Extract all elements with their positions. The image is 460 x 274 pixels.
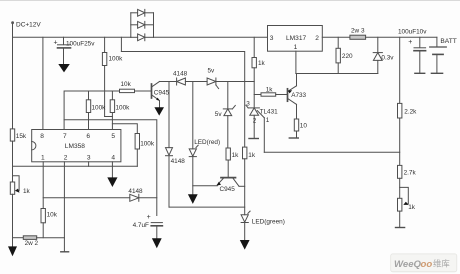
- svg-text:C945: C945: [154, 89, 170, 96]
- zener D 5v (horizontal): [207, 67, 219, 88]
- battery BATT: [430, 37, 457, 73]
- diode D 4148 (points left): [173, 70, 188, 85]
- svg-text:100k: 100k: [116, 105, 131, 112]
- svg-text:3: 3: [87, 154, 91, 161]
- svg-text:A733: A733: [291, 92, 306, 99]
- svg-text:1k: 1k: [258, 60, 266, 67]
- ground arrow under pin4: [107, 177, 117, 187]
- ground bar under TL431: [249, 138, 258, 140]
- svg-text:4.7uF: 4.7uF: [133, 222, 149, 229]
- resistor R 2w3: [350, 28, 437, 40]
- wire long y152: [264, 151, 399, 153]
- wire pin2 down: [63, 162, 65, 252]
- wire y73.5: [296, 73, 378, 75]
- resistor R 2w2: [13, 236, 65, 247]
- wire pin3 down: [88, 162, 90, 167]
- svg-text:4148: 4148: [128, 188, 143, 195]
- wire drop x=244.7: [244, 82, 246, 148]
- node DC+12V terminal: [11, 21, 41, 28]
- wire rail to LM317 pin3: [154, 36, 268, 38]
- svg-text:DC+12V: DC+12V: [16, 22, 41, 29]
- wire y81 (zener row): [160, 81, 177, 83]
- ground bar under R10: [289, 137, 298, 139]
- svg-text:2w 2: 2w 2: [25, 240, 39, 247]
- svg-text:2w 3: 2w 3: [351, 28, 365, 35]
- wire main +12V rail: [13, 36, 131, 38]
- resistor R 220: [336, 37, 353, 73]
- LM317 U2: [268, 26, 323, 52]
- wire second rail: [121, 52, 244, 82]
- svg-text:4: 4: [111, 154, 115, 161]
- svg-text:1: 1: [266, 117, 270, 124]
- svg-text:BATT: BATT: [440, 38, 456, 45]
- LM358 U1: [32, 130, 121, 162]
- svg-text:1k: 1k: [248, 152, 256, 159]
- svg-text:2: 2: [315, 35, 319, 42]
- diode D 4148 (bottom, points right): [128, 188, 156, 201]
- faint top border: [0, 0, 460, 2]
- svg-text:100uF10v: 100uF10v: [398, 29, 427, 36]
- svg-text:LED(red): LED(red): [194, 139, 220, 146]
- wire LM317 out: [322, 36, 350, 38]
- wire jog from top 100k to pair: [105, 116, 113, 118]
- svg-text:1: 1: [294, 44, 298, 51]
- svg-text:oo: oo: [421, 259, 433, 270]
- svg-text:3: 3: [246, 100, 250, 107]
- svg-text:100uF25v: 100uF25v: [66, 40, 95, 47]
- svg-text:10: 10: [300, 122, 308, 129]
- resistor R 10: [294, 119, 307, 138]
- svg-text:6: 6: [86, 133, 90, 140]
- svg-text:100k: 100k: [92, 105, 107, 112]
- transistor Q3 A733: [288, 74, 307, 120]
- ground arrow under 4.7uF: [152, 238, 162, 248]
- svg-text:+: +: [408, 39, 412, 46]
- capacitor C 4.7uF: [133, 214, 163, 238]
- resistor R 2.7k: [398, 165, 417, 198]
- svg-text:LM358: LM358: [65, 143, 85, 150]
- svg-text:WeeQ: WeeQ: [394, 259, 422, 270]
- svg-text:3: 3: [270, 35, 274, 42]
- resistor R 100k (top): [102, 37, 123, 116]
- resistor R 100k (left of pair): [86, 91, 106, 130]
- svg-text:10k: 10k: [47, 211, 58, 218]
- ground bar right column: [396, 227, 405, 229]
- trimmer R 1k (left rail): [10, 176, 30, 247]
- diode D 4148 (vertical): [166, 148, 186, 208]
- ground arrow under LED green: [240, 240, 250, 250]
- wire right column top: [399, 37, 401, 103]
- svg-text:15k: 15k: [16, 133, 27, 140]
- svg-text:1k: 1k: [266, 86, 274, 93]
- svg-text:5v: 5v: [208, 67, 216, 74]
- svg-text:1k: 1k: [232, 152, 240, 159]
- svg-text:10k: 10k: [121, 81, 132, 88]
- diode D2 (middle of trio): [131, 21, 154, 28]
- resistor R 100k (right of pair): [110, 91, 130, 130]
- ground arrow under LED red: [188, 194, 198, 204]
- wire pin5 to 100k right: [112, 124, 137, 134]
- svg-text:4148: 4148: [173, 70, 188, 77]
- resistor R 10k (bottom left): [41, 209, 58, 238]
- svg-text:LM317: LM317: [286, 35, 306, 42]
- resistor R 1k (above C945 #2): [226, 148, 239, 178]
- transistor Q1 C945: [152, 82, 170, 108]
- ground arrow under 100uF25v: [58, 64, 70, 72]
- svg-text:维库: 维库: [433, 258, 450, 268]
- wire y207: [169, 206, 245, 208]
- watermark WeeQoo: [391, 254, 457, 272]
- ground arrow under Q1: [154, 107, 164, 115]
- zener D 5v (vertical): [215, 82, 236, 149]
- ground bar under 100uF10v: [415, 72, 425, 74]
- wire pin8 drop: [42, 37, 44, 129]
- svg-text:1k: 1k: [408, 204, 416, 211]
- diode D 0.3v: [373, 37, 394, 73]
- ground arrow bottom left: [8, 246, 17, 256]
- svg-text:2: 2: [64, 154, 68, 161]
- svg-text:2.2k: 2.2k: [404, 109, 417, 116]
- resistor R 10k (horizontal top): [120, 81, 152, 92]
- svg-text:LED(green): LED(green): [252, 218, 285, 225]
- svg-text:0.3v: 0.3v: [381, 55, 394, 62]
- capacitor C 100uF10v: [398, 29, 427, 73]
- wire y166 (below IC): [13, 165, 138, 167]
- svg-text:TL431: TL431: [260, 108, 279, 115]
- diode trio rails: [130, 13, 132, 38]
- svg-text:1: 1: [41, 154, 45, 161]
- svg-text:4148: 4148: [171, 158, 186, 165]
- LED LED(red): [189, 139, 220, 195]
- resistor R 100k (right of LM358): [135, 134, 155, 167]
- svg-text:C945: C945: [220, 186, 236, 193]
- wire drop to 4148 vertical: [168, 82, 170, 148]
- svg-text:7: 7: [63, 133, 67, 140]
- resistor R 2.2k: [398, 103, 418, 165]
- LED LED(green): [241, 211, 285, 240]
- transistor Q2 C945 (bottom): [217, 178, 245, 194]
- trimmer R 1k (right): [398, 187, 416, 227]
- wire top rail left: [12, 24, 14, 37]
- svg-text:8: 8: [40, 133, 44, 140]
- resistor R 15k (left rail): [10, 37, 27, 182]
- diode D1 (top of trio): [131, 9, 154, 16]
- svg-text:5: 5: [111, 133, 115, 140]
- TL431 U3: [246, 100, 278, 152]
- wire pin4 down: [111, 162, 113, 178]
- wire pin1 down: [42, 162, 44, 209]
- wire drop to second rail: [120, 37, 122, 51]
- svg-text:2.7k: 2.7k: [404, 170, 417, 177]
- wire LM317 adj down: [295, 51, 297, 73]
- svg-text:1k: 1k: [23, 188, 31, 195]
- capacitor C 100uF25v: [54, 37, 96, 64]
- svg-text:2: 2: [253, 118, 257, 125]
- svg-text:100k: 100k: [109, 56, 124, 63]
- svg-text:5v: 5v: [215, 111, 223, 118]
- resistor R 1k (under rail, to TL431): [252, 37, 266, 108]
- wire y197.8 with 4148: [43, 197, 130, 199]
- svg-text:+: +: [54, 39, 58, 46]
- ground bar pin2: [61, 251, 69, 253]
- ground bar under battery: [431, 72, 442, 74]
- resistor R 1k (right of pair): [243, 147, 256, 215]
- diode D3 (bottom of trio, in rail): [131, 34, 154, 41]
- svg-text:220: 220: [342, 53, 353, 60]
- svg-text:+: +: [147, 214, 151, 221]
- wire pin7 corner and ladder wire: [64, 91, 119, 130]
- svg-text:100k: 100k: [140, 140, 155, 147]
- wire to 4.7uF branch: [64, 120, 157, 216]
- wire emitter to LED red line: [193, 185, 218, 187]
- resistor R 1k (horizontal, to A733 base): [254, 86, 287, 96]
- wire drop to LED red: [192, 82, 194, 149]
